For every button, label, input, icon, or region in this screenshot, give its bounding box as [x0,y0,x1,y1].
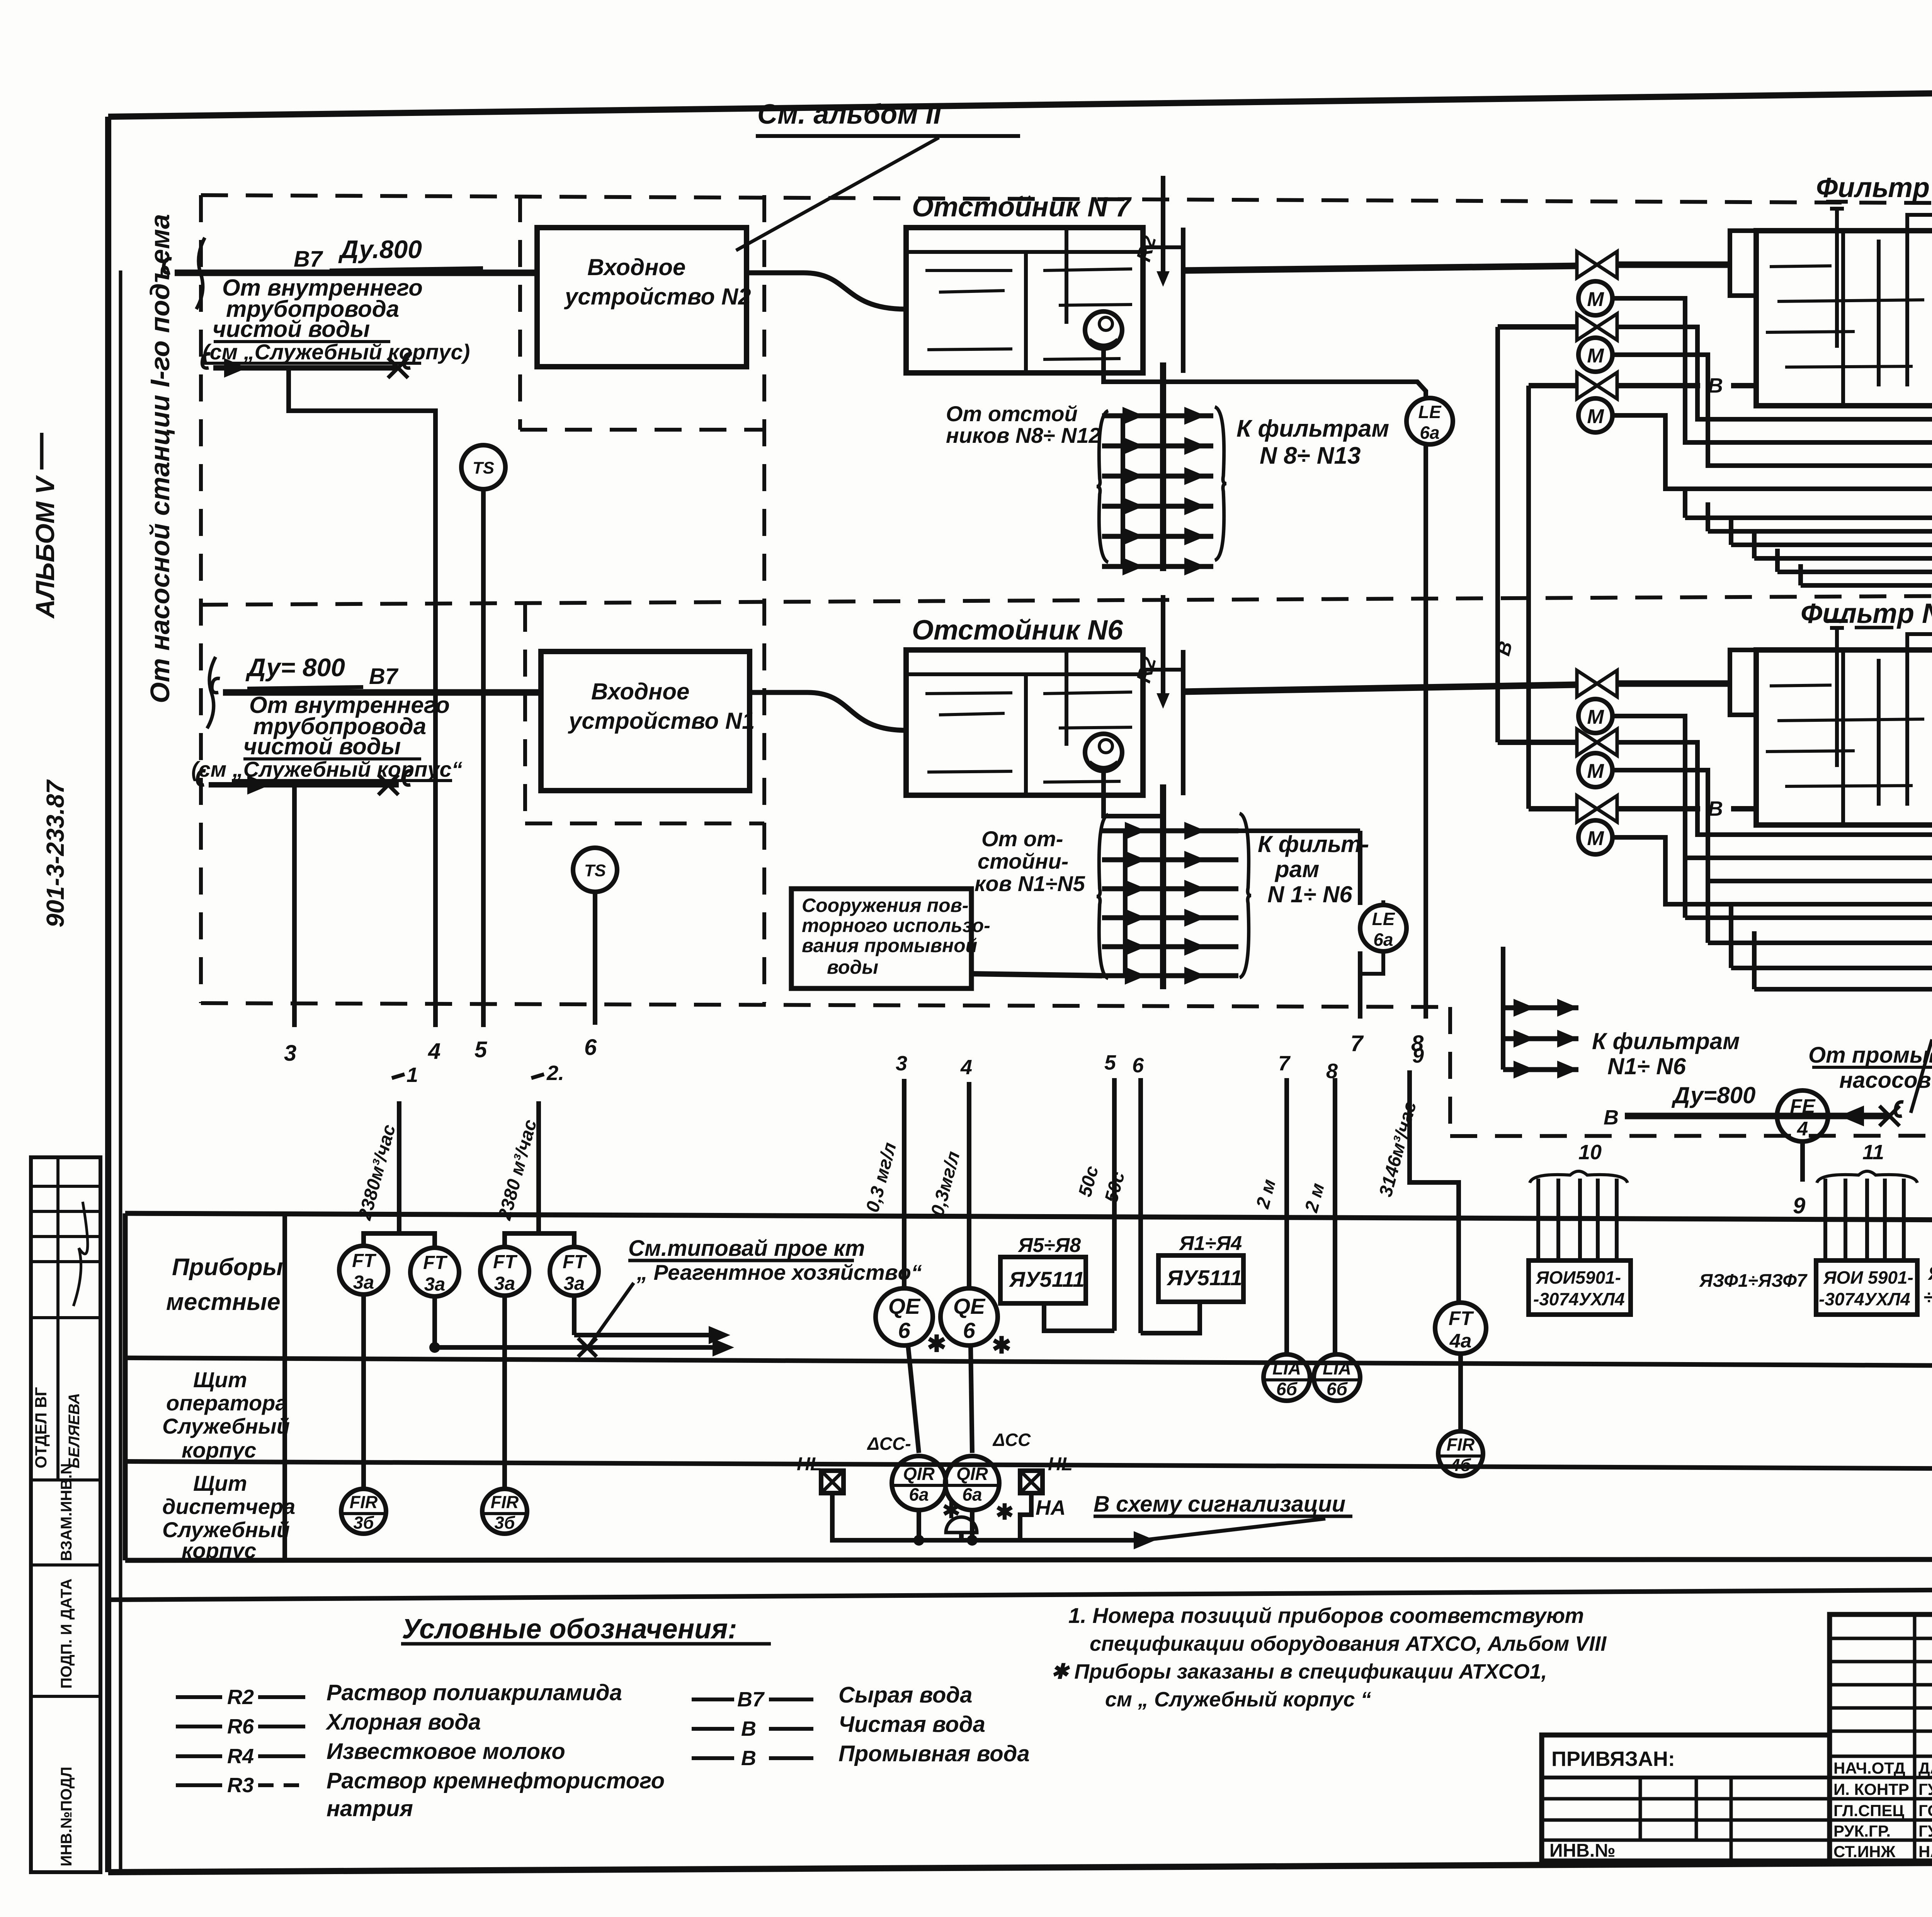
scraper symbol tank N7 [1085,311,1122,349]
dashed boundary step [1448,1007,1452,1136]
svg-text:3а: 3а [424,1274,446,1295]
wire M1 lower to nest [1612,716,1932,858]
svg-text:3а: 3а [564,1273,585,1294]
wire M3 upper to nest [1612,415,1932,514]
svg-text:6б: 6б [1327,1379,1348,1399]
svg-text:9: 9 [1412,1044,1424,1067]
svg-text:Известковое молоко: Известковое молоко [327,1739,565,1764]
svg-text:Я5÷Я8: Я5÷Я8 [1017,1234,1081,1257]
svg-text:В: В [1708,374,1723,397]
svg-text:Я1÷Я4: Я1÷Я4 [1179,1232,1242,1255]
svg-text:торного использо-: торного использо- [802,915,990,936]
svg-text:4: 4 [1797,1118,1808,1140]
lamp HL left no2 [1020,1471,1043,1493]
valve V1 motor M [1578,281,1612,315]
filter N7 vent ground [1835,628,1839,767]
svg-text:6: 6 [898,1318,910,1343]
valve V1 upper [1577,252,1617,278]
valve V3 motor lower [1578,820,1612,854]
svg-text:ОТДЕЛ ВГ: ОТДЕЛ ВГ [32,1387,50,1469]
svg-text:РУК.ГР.: РУК.ГР. [1833,1822,1891,1840]
svg-text:-3074УХЛ4: -3074УХЛ4 [1819,1289,1910,1309]
legend R4 [176,1754,222,1758]
svg-text:ИНВ.№ПОДЛ: ИНВ.№ПОДЛ [58,1767,75,1866]
svg-text:спецификации оборудования АТХС: спецификации оборудования АТХСО, Альбом … [1090,1632,1607,1655]
svg-text:Промывная вода: Промывная вода [838,1741,1030,1766]
svg-text:См.типовай прое кт: См.типовай прое кт [628,1236,865,1261]
valve V3 upper [1529,383,1577,388]
tee line2 to FT circles [505,1233,574,1246]
line 8 panel with label [1333,1078,1337,1354]
dashed boundary mid divider [201,593,1932,605]
svg-text:В схему сигнализации: В схему сигнализации [1094,1492,1345,1517]
svg-text:ЯОИ5901-: ЯОИ5901- [1536,1267,1621,1288]
svg-text:вания промывной: вания промывной [802,935,977,956]
svg-text:В: В [1604,1106,1619,1129]
filter N14 vent ground symbol [1835,209,1839,348]
pipe B7 upper [175,270,537,276]
legend B clean [692,1727,734,1731]
svg-text:К фильт-: К фильт- [1258,831,1369,857]
svg-text:корпус: корпус [182,1538,256,1563]
svg-text:✱: ✱ [992,1332,1011,1358]
instrument LIA6b no2 [1314,1354,1360,1401]
svg-text:LIA: LIA [1272,1358,1301,1378]
instrument LIA6b no1 [1264,1354,1310,1401]
svg-text:3б: 3б [495,1513,515,1533]
wire M1 upper to under-filter nest [1612,298,1932,442]
svg-text:LE: LE [1418,402,1442,422]
wire QE1 to QIR1 [908,1345,919,1453]
valve V2 upper [1498,324,1577,330]
svg-text:6а: 6а [962,1485,982,1505]
box YaU5111 no2 [1158,1255,1243,1302]
wire M2 lower to nest [1612,770,1932,881]
svg-text:QIR: QIR [903,1464,935,1484]
valve V2 motor lower [1578,753,1612,787]
svg-text:„ Реагентное хозяйствο“: „ Реагентное хозяйствο“ [636,1260,922,1284]
svg-text:воды: воды [827,956,878,978]
legend R2 [176,1695,222,1699]
instrument TS2 [573,848,617,892]
svg-text:См. альбом II: См. альбом II [757,99,942,130]
svg-text:Отстойник N 7: Отстойник N 7 [912,192,1132,223]
svg-text:чистой воды: чистой воды [213,316,370,342]
box YaU5111 no1 [1000,1257,1086,1303]
svg-text:1. Номера позиций приборов со: 1. Номера позиций приборов соответствуют [1068,1603,1584,1628]
svg-text:8: 8 [1326,1060,1338,1083]
pipe box N1 to tank N6 [750,692,906,730]
filter N14 body [1756,231,1932,406]
instrument FT4a [1435,1303,1486,1354]
tee line1 to FT circles [364,1233,435,1246]
wire FT2 down to signal line [432,1296,437,1347]
svg-text:ПОДП. И ДАТА: ПОДП. И ДАТА [58,1579,75,1689]
svg-text:TS: TS [584,861,606,880]
instrument FIR3b no2 [482,1489,527,1534]
wire M3 lower down [1612,837,1932,929]
svg-text:FT: FT [352,1250,377,1271]
wire QE2 to QIR2 [971,1345,972,1453]
wire LE6a lower to stub 7 [1381,900,1385,905]
svg-text:5: 5 [1104,1051,1116,1074]
svg-text:6: 6 [1132,1054,1144,1077]
instrument FE4 [1777,1090,1828,1141]
left margin stamp boxes [31,1157,100,1872]
svg-text:TS: TS [473,459,494,478]
legend B wash [692,1756,734,1760]
svg-text:HL: HL [1048,1454,1073,1475]
svg-text:6: 6 [963,1318,975,1343]
line 5 panel with label 50C [1112,1078,1117,1331]
svg-text:10: 10 [1578,1141,1602,1164]
arrow grid to filters N1-N6 [1097,815,1108,978]
filter N7 top right connection [1907,634,1932,659]
bundle feeder wires upper [1685,515,1932,520]
signal line left [832,1538,1134,1543]
svg-text:Фильтр N 7: Фильтр N 7 [1801,598,1932,629]
dashed subbox bottom N1 [525,822,764,825]
svg-text:LE: LE [1372,909,1395,929]
svg-text:Входное: Входное [591,679,689,704]
svg-text:ПРИВЯЗАН:: ПРИВЯЗАН: [1551,1747,1675,1771]
svg-text:В7: В7 [737,1688,765,1711]
wire FT4 down [572,1296,577,1335]
drain from scraper tank N6 [1104,771,1163,816]
instrument LE6a upper [1406,398,1453,444]
svg-text:(см „Служебный корпус): (см „Служебный корпус) [202,340,470,364]
valve V2 lower [1498,740,1577,745]
svg-text:-3074УХЛ4: -3074УХЛ4 [1533,1289,1625,1309]
svg-text:FIR: FIR [1447,1435,1475,1454]
pipe B7 lower start hook [212,679,220,693]
svg-text:M: M [1587,706,1604,728]
R2 dosing line lower [1161,595,1165,703]
line 2 with flow label 2380 [536,1101,541,1233]
svg-text:От промывных: От промывных [1808,1043,1932,1068]
leader to box N2 [736,138,939,250]
secondary line upper [202,354,210,368]
svg-text:5: 5 [474,1037,487,1062]
wire valve V2 lower to nest [1617,742,1932,835]
drain from scraper to LE6a upper [1104,349,1426,398]
svg-text:Ду=800: Ду=800 [1671,1082,1755,1108]
feed vertical to valve V2 upper [1495,327,1500,742]
legend R3 [176,1783,222,1787]
svg-text:Служебный: Служебный [162,1414,290,1438]
svg-text:Ду.800: Ду.800 [338,235,422,264]
svg-text:Чистая вода: Чистая вода [838,1712,985,1737]
svg-text:АЛЬБОМ V: АЛЬБОМ V [31,475,60,619]
instrument QE6 no2 [940,1288,998,1345]
svg-text:ЯУ5111: ЯУ5111 [1166,1266,1242,1290]
svg-text:4: 4 [960,1056,972,1079]
instrument table frame [125,1213,1932,1222]
svg-text:✱: ✱ [927,1331,946,1357]
svg-text:ΔСС: ΔСС [992,1430,1031,1450]
line 7 panel with label [1284,1078,1289,1354]
dashed subbox bottom N2 [520,428,764,432]
pipe valve V1 lower to filter N7 [1617,680,1730,687]
svg-text:корпус: корпус [182,1438,256,1462]
svg-text:ВЗАМ.ИНВ.N: ВЗАМ.ИНВ.N [58,1463,75,1561]
svg-text:ЯЗФ8-: ЯЗФ8- [1927,1262,1932,1284]
instrument QIR6a no1 [892,1456,946,1510]
svg-text:От отстой: От отстой [946,401,1078,426]
svg-text:стойни-: стойни- [978,849,1068,873]
svg-text:÷ЯЗФ14: ÷ЯЗФ14 [1923,1286,1932,1308]
tank N6 right compartment [1141,650,1145,795]
svg-text:От от-: От от- [981,827,1063,851]
svg-text:FT: FT [1449,1307,1474,1329]
svg-text:Щит: Щит [193,1368,247,1392]
svg-text:FIR: FIR [491,1492,519,1512]
svg-text:ИНВ.№: ИНВ.№ [1549,1840,1616,1861]
svg-text:3: 3 [284,1041,296,1066]
line 6 panel with label 50C [1138,1078,1143,1333]
svg-text:7: 7 [1278,1052,1291,1075]
wire grid lower to LE6a [1238,828,1360,833]
svg-text:M: M [1587,345,1604,367]
wire FT4a to FIR4b [1458,1354,1463,1431]
svg-text:устройство N2: устройство N2 [564,284,751,310]
wire TS2 to line 6 [593,892,597,1025]
dashed inner vertical x1346 [518,195,522,430]
svg-text:Ду= 800: Ду= 800 [245,653,345,682]
svg-text:R4: R4 [227,1745,254,1768]
svg-text:ЯОИ 5901-: ЯОИ 5901- [1823,1267,1913,1288]
junction box YaOI5901-3074UHL4 second [1816,1260,1917,1315]
valve V3 motor M [1578,398,1612,432]
svg-text:6а: 6а [1373,930,1393,950]
pipe box N2 to tank N7 [747,273,906,309]
dashed boundary bottom left part [201,1003,1450,1007]
bundle feeder wires lower [1685,915,1932,920]
leader from caption [590,1283,634,1344]
wire from secondary line to line 4 [289,368,435,1027]
filter N7 body [1756,650,1932,825]
svg-text:6а: 6а [909,1485,929,1505]
svg-text:местные: местные [166,1289,281,1315]
svg-text:чистой воды: чистой воды [243,733,401,759]
svg-text:M: M [1587,827,1604,850]
svg-text:M: M [1587,288,1604,311]
instrument FT3a no2 [410,1248,459,1296]
svg-text:В7: В7 [369,664,399,689]
instrument LE6a lower [1360,905,1406,951]
line 4 panel with label 03mgl [967,1082,971,1288]
svg-text:Условные обозначения:: Условные обозначения: [402,1614,737,1645]
legend R6 [176,1725,222,1728]
svg-text:LIA: LIA [1323,1358,1351,1378]
svg-text:R3: R3 [227,1774,254,1797]
svg-text:ков N1÷N5: ков N1÷N5 [975,871,1085,896]
box sooruzhenija povtornogo ispolzovanija [791,889,971,988]
svg-text:(см „Служебный корпус“: (см „Служебный корпус“ [191,757,463,781]
svg-text:901-3-233.87: 901-3-233.87 [41,779,69,927]
svg-text:11: 11 [1862,1141,1884,1164]
pipe tank N6 to valves lower [1183,685,1577,692]
svg-text:3: 3 [896,1052,907,1075]
horn symbol left [946,1517,977,1533]
svg-text:От насосной станции І-го подъе: От насосной станции І-го подъема [145,214,175,703]
svg-text:M: M [1587,405,1604,428]
wire secondary lower to line 3 [292,785,297,1027]
svg-text:НАБНУЛИНА: НАБНУЛИНА [1918,1842,1932,1861]
svg-text:рам: рам [1274,856,1319,882]
instrument FIR3b no1 [341,1489,386,1534]
svg-text:2.: 2. [546,1061,564,1085]
svg-text:6а: 6а [1420,423,1439,443]
svg-text:N1÷ N6: N1÷ N6 [1607,1053,1686,1079]
tank N7 right compartment [1141,228,1145,373]
svg-text:3б: 3б [354,1513,374,1533]
svg-text:FT: FT [423,1252,448,1273]
svg-text:Приборы: Приборы [172,1254,283,1281]
third arrow grid to filters N1-N6 [1501,947,1505,1070]
wire YaU2 to line 6 [1141,1302,1200,1333]
legend B7 [692,1698,734,1701]
stamp signature [73,1202,88,1306]
pipe B7 upper start hook [163,259,172,273]
svg-text:6б: 6б [1276,1379,1298,1399]
svg-text:QE: QE [953,1294,986,1319]
svg-text:4б: 4б [1450,1455,1471,1475]
instrument TS1 [461,445,505,489]
svg-text:FT: FT [563,1252,587,1272]
instrument FT3a no4 [550,1247,599,1296]
secondary line lower [197,771,206,785]
R2 feed below tank N6 [1160,784,1166,989]
signal arrows to reagent plant [574,1333,709,1337]
svg-text:N 8÷ N13: N 8÷ N13 [1260,442,1361,469]
dashed inner vertical x1978 [762,195,766,1003]
box inlet device N2 [537,228,747,367]
svg-text:QE: QE [888,1294,921,1319]
wire valve V2 to nest [1617,327,1932,419]
svg-text:FIR: FIR [350,1492,378,1512]
feed vertical to valve V3 upper [1526,386,1531,809]
svg-text:4а: 4а [1449,1330,1472,1352]
valve V3 lower [1529,806,1577,811]
svg-text:В: В [741,1747,756,1770]
wire YaU1 to line 5 [1044,1303,1114,1331]
svg-text:устройство N1: устройство N1 [568,708,755,734]
filter N14 water strokes [1770,266,1832,267]
signal wires QIR to line [832,1493,919,1540]
brace at pipe B start [207,657,216,728]
svg-text:ГОЛЬЦМАН: ГОЛЬЦМАН [1918,1801,1932,1820]
leader arrow left [1136,1519,1325,1541]
line 3 panel with label 03mgl [902,1079,906,1288]
pipe valve V1 to filter N14 [1617,262,1730,268]
R2 dosing line upper [1161,176,1165,281]
brace at pipe A start [196,238,205,309]
tank settler N7 [906,228,1143,373]
inner left border line [119,270,122,1872]
title block staff table [1830,1614,1932,1861]
svg-text:1: 1 [406,1063,418,1087]
svg-text:НА: НА [1036,1496,1066,1519]
svg-text:см „ Служебный корпус “: см „ Служебный корпус “ [1105,1688,1371,1711]
svg-text:6: 6 [584,1035,597,1060]
svg-text:ЯЗФ1÷ЯЗФ7: ЯЗФ1÷ЯЗФ7 [1699,1270,1808,1291]
tank N6 water strokes [925,693,1012,694]
wire LE6a upper down to stub 8 [1423,444,1428,1019]
svg-text:Раствор кремнефтористого: Раствор кремнефтористого [327,1768,665,1793]
instrument QIR6a no2 [945,1456,999,1510]
svg-text:СТ.ИНЖ: СТ.ИНЖ [1833,1842,1896,1861]
svg-text:HL: HL [797,1454,821,1475]
svg-text:натрия: натрия [327,1796,413,1821]
svg-text:R2: R2 [227,1686,254,1709]
svg-text:ников N8÷ N12: ников N8÷ N12 [946,423,1101,447]
scraper symbol tank N6 [1085,734,1122,771]
svg-text:N 1÷ N6: N 1÷ N6 [1267,881,1352,907]
svg-text:Входное: Входное [587,254,685,280]
svg-text:В: В [1708,797,1723,820]
svg-text:Щит: Щит [193,1471,247,1495]
valve V1 lower [1577,670,1617,697]
svg-text:К фильтрам: К фильтрам [1236,415,1389,442]
instrument FIR4b [1438,1431,1483,1476]
title block privjazan table [1542,1735,1830,1861]
arrow grid to filters N8-N13 [1097,411,1108,562]
svg-text:QIR: QIR [956,1464,988,1484]
wire from reuse box to grid row 6 [971,974,1102,976]
separator line above legend [108,1586,1932,1600]
box inlet device N1 [541,651,750,791]
svg-text:В7: В7 [294,247,323,272]
line 3 field stub [292,787,297,1027]
junction box YaOI5901-3074UHL4 first [1529,1260,1631,1315]
svg-text:✱ Приборы заказаны в специфика: ✱ Приборы заказаны в спецификации АТХСО1… [1051,1660,1547,1683]
svg-text:3а: 3а [494,1273,515,1294]
svg-text:диспетчера: диспетчера [162,1494,295,1519]
svg-text:Хлорная вода: Хлорная вода [325,1709,481,1735]
instrument FT3a no3 [480,1247,529,1296]
svg-text:В: В [741,1717,756,1740]
valve V2 motor M [1578,338,1612,372]
svg-text:Сооружения пов-: Сооружения пов- [802,895,969,916]
panel line 9 with flow label [1410,1070,1459,1301]
svg-text:Фильтр N 14: Фильтр N 14 [1816,172,1932,203]
pipe B7 lower [223,689,541,696]
svg-text:M: M [1587,760,1604,782]
svg-text:FE: FE [1790,1095,1816,1117]
tank settler N6 [906,650,1143,795]
svg-text:Отстойник N6: Отстойник N6 [912,615,1123,646]
tank N7 water strokes [925,269,1012,272]
svg-text:9: 9 [1793,1193,1805,1218]
wire TS1 to line 5 [481,489,486,1027]
valve V1 motor lower [1578,699,1612,733]
svg-text:Сырая вода: Сырая вода [838,1682,973,1708]
svg-text:R6: R6 [227,1715,254,1738]
dashed boundary bottom right part [1450,1135,1932,1136]
svg-text:✱: ✱ [996,1500,1014,1524]
svg-text:7: 7 [1350,1031,1364,1056]
svg-text:ГУСЕВА: ГУСЕВА [1918,1822,1932,1840]
svg-text:ДАНИЛОВ: ДАНИЛОВ [1918,1759,1932,1777]
sheet outer frame [108,84,1932,117]
svg-text:Раствор полиакриламида: Раствор полиакриламида [327,1680,622,1705]
filter N7 water strokes [1770,685,1832,686]
instrument FT3a no1 [339,1246,388,1294]
line 1 with flow label 2380 [397,1101,401,1233]
svg-text:ГУСЕВА: ГУСЕВА [1918,1780,1932,1798]
wire FT3 to FIR3b no2 [502,1296,507,1489]
